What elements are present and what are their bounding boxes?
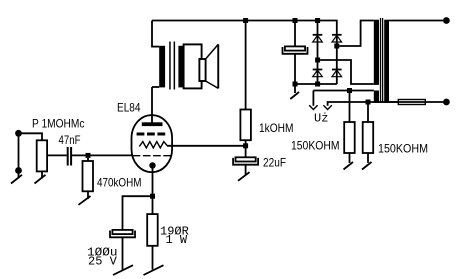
ground C3 chassis bbox=[113, 265, 133, 275]
tube U1 EL84 envelope bbox=[132, 115, 173, 172]
ground DC minus chassis bbox=[290, 92, 299, 99]
node grid junction bbox=[86, 153, 91, 158]
wire rail corner to D3 bbox=[336, 21, 338, 47]
wire C1 to grid node bbox=[72, 154, 134, 156]
output transformer T1 primary top lead bbox=[152, 46, 159, 48]
wire B+ rail bbox=[152, 20, 337, 22]
tube control grid dashes bbox=[133, 155, 171, 157]
node cathode junction bbox=[150, 194, 155, 199]
tube anode plate bar bbox=[142, 122, 163, 126]
svg-text:150KOHM: 150KOHM bbox=[378, 142, 428, 156]
capacitor C3 100u 25V electrolytic bbox=[112, 230, 132, 234]
tube screen grid dashes bbox=[137, 133, 166, 136]
input jack bottom terminal bbox=[15, 167, 22, 174]
wire anode up to transformer bbox=[151, 87, 153, 123]
wire AC1 to transformer bottom bbox=[320, 60, 374, 84]
node screen junction bbox=[243, 143, 248, 148]
mains transformer T2 primary winding bbox=[384, 20, 389, 103]
diode D3 bbox=[332, 34, 342, 36]
potentiometer P1 P 1MOHMc bbox=[37, 140, 47, 171]
wire screen lead from tube bbox=[167, 145, 246, 147]
wire node to R470k bbox=[87, 158, 89, 161]
speaker LS1 horn bbox=[217, 44, 219, 88]
resistor R4 150KOHM bbox=[344, 122, 355, 153]
capacitor C1 47nF bbox=[67, 147, 69, 166]
svg-text:470kOHM: 470kOHM bbox=[97, 175, 142, 189]
ground R1 chassis bbox=[79, 196, 91, 205]
node rail to C4 bbox=[293, 18, 298, 23]
fuse F1 bbox=[398, 100, 425, 105]
svg-text:P 1MOHMc: P 1MOHMc bbox=[32, 117, 85, 131]
wire R3 bottom bbox=[152, 246, 154, 270]
wire C3 bottom bbox=[122, 237, 124, 269]
arrow Uz right bbox=[323, 105, 331, 109]
wire C4 bottom bbox=[294, 54, 296, 84]
ground R3 chassis bbox=[144, 265, 164, 275]
ground R5 chassis bbox=[362, 162, 372, 170]
wire pot bottom bbox=[41, 171, 43, 178]
resistor R5 150KOHM bbox=[363, 122, 374, 153]
capacitor C2 22uF electrolytic bbox=[236, 157, 256, 161]
wire R4 bottom bbox=[349, 153, 351, 163]
node AC1 at D1 bbox=[315, 58, 320, 63]
output transformer T1 secondary winding bbox=[178, 46, 184, 88]
node heater top to R4 bbox=[347, 88, 352, 93]
ground R4 chassis bbox=[344, 162, 354, 170]
wire heater top lead bbox=[313, 90, 373, 92]
svg-text:EL84: EL84 bbox=[117, 101, 141, 115]
tube cathode dot bbox=[149, 162, 155, 168]
ground input chassis bbox=[11, 175, 22, 184]
resistor R3 190R 1W bbox=[147, 214, 158, 246]
wire cathode to C3 branch bbox=[123, 196, 153, 230]
speaker LS1 magnet bbox=[199, 59, 205, 81]
terminal mains bottom bbox=[443, 99, 450, 106]
diode D2 bbox=[317, 63, 319, 85]
node DC minus at C4 bbox=[293, 82, 298, 87]
resistor R1 470kOHM bbox=[83, 161, 94, 191]
node AC2 at D3 bbox=[334, 44, 339, 49]
diode D4 bbox=[336, 49, 338, 85]
arrow Uz left bbox=[312, 91, 314, 106]
wire rail down to R2 bbox=[245, 21, 247, 110]
wire cathode down bbox=[152, 168, 154, 214]
wire DC minus to bridge bbox=[295, 83, 337, 85]
wire input vertical bbox=[18, 133, 20, 178]
wire R4 drop bbox=[349, 93, 351, 122]
node rail to D1 bbox=[315, 18, 320, 23]
input jack top terminal bbox=[15, 130, 22, 137]
svg-text:47nF: 47nF bbox=[59, 133, 81, 147]
node DC minus at D2 bbox=[315, 82, 320, 87]
wire input to pot bbox=[19, 133, 43, 140]
mains transformer T2 core bbox=[380, 18, 382, 103]
svg-text:150KOHM: 150KOHM bbox=[291, 139, 340, 153]
speaker LS1 body bbox=[184, 44, 202, 88]
wire C2 bottom bbox=[245, 165, 247, 175]
capacitor C4 filter electrolytic bbox=[285, 46, 305, 50]
wire rail down to C4 bbox=[294, 21, 296, 47]
svg-text:1kOHM: 1kOHM bbox=[259, 121, 294, 135]
svg-text:1 W: 1 W bbox=[166, 233, 188, 247]
svg-text:22uF: 22uF bbox=[263, 156, 286, 170]
tube zigzag grid bbox=[139, 142, 167, 148]
wire DC minus stub down bbox=[294, 87, 296, 94]
node rail to R2 bbox=[243, 18, 248, 23]
ground pot chassis bbox=[35, 175, 46, 184]
wire primary top to terminal bbox=[389, 20, 443, 22]
output transformer T1 primary winding bbox=[159, 46, 165, 88]
wire R5 bottom bbox=[367, 153, 369, 163]
mains transformer T2 heater winding bbox=[374, 91, 379, 103]
diode D1 bbox=[317, 21, 319, 61]
output transformer T1 primary bottom lead bbox=[152, 86, 159, 88]
ground C2 chassis bbox=[238, 172, 250, 181]
wire R2 to screen node bbox=[245, 140, 247, 157]
terminal mains top bbox=[443, 17, 450, 24]
node heater bottom to R5 bbox=[366, 100, 371, 105]
wire heater bottom lead bbox=[328, 102, 399, 106]
wire wiper to C1 bbox=[47, 154, 67, 156]
wire AC2 to transformer top bbox=[339, 21, 374, 47]
wire primary bottom to fuse bbox=[389, 101, 443, 103]
resistor R2 1kOHM bbox=[240, 110, 251, 141]
wire R5 drop bbox=[367, 105, 369, 123]
mains transformer T2 secondary HV winding bbox=[374, 20, 379, 85]
svg-text:Uż: Uż bbox=[314, 111, 328, 125]
svg-text:25 V: 25 V bbox=[88, 255, 118, 269]
wire R1 bottom bbox=[87, 191, 89, 199]
output transformer T1 core bbox=[169, 42, 171, 90]
